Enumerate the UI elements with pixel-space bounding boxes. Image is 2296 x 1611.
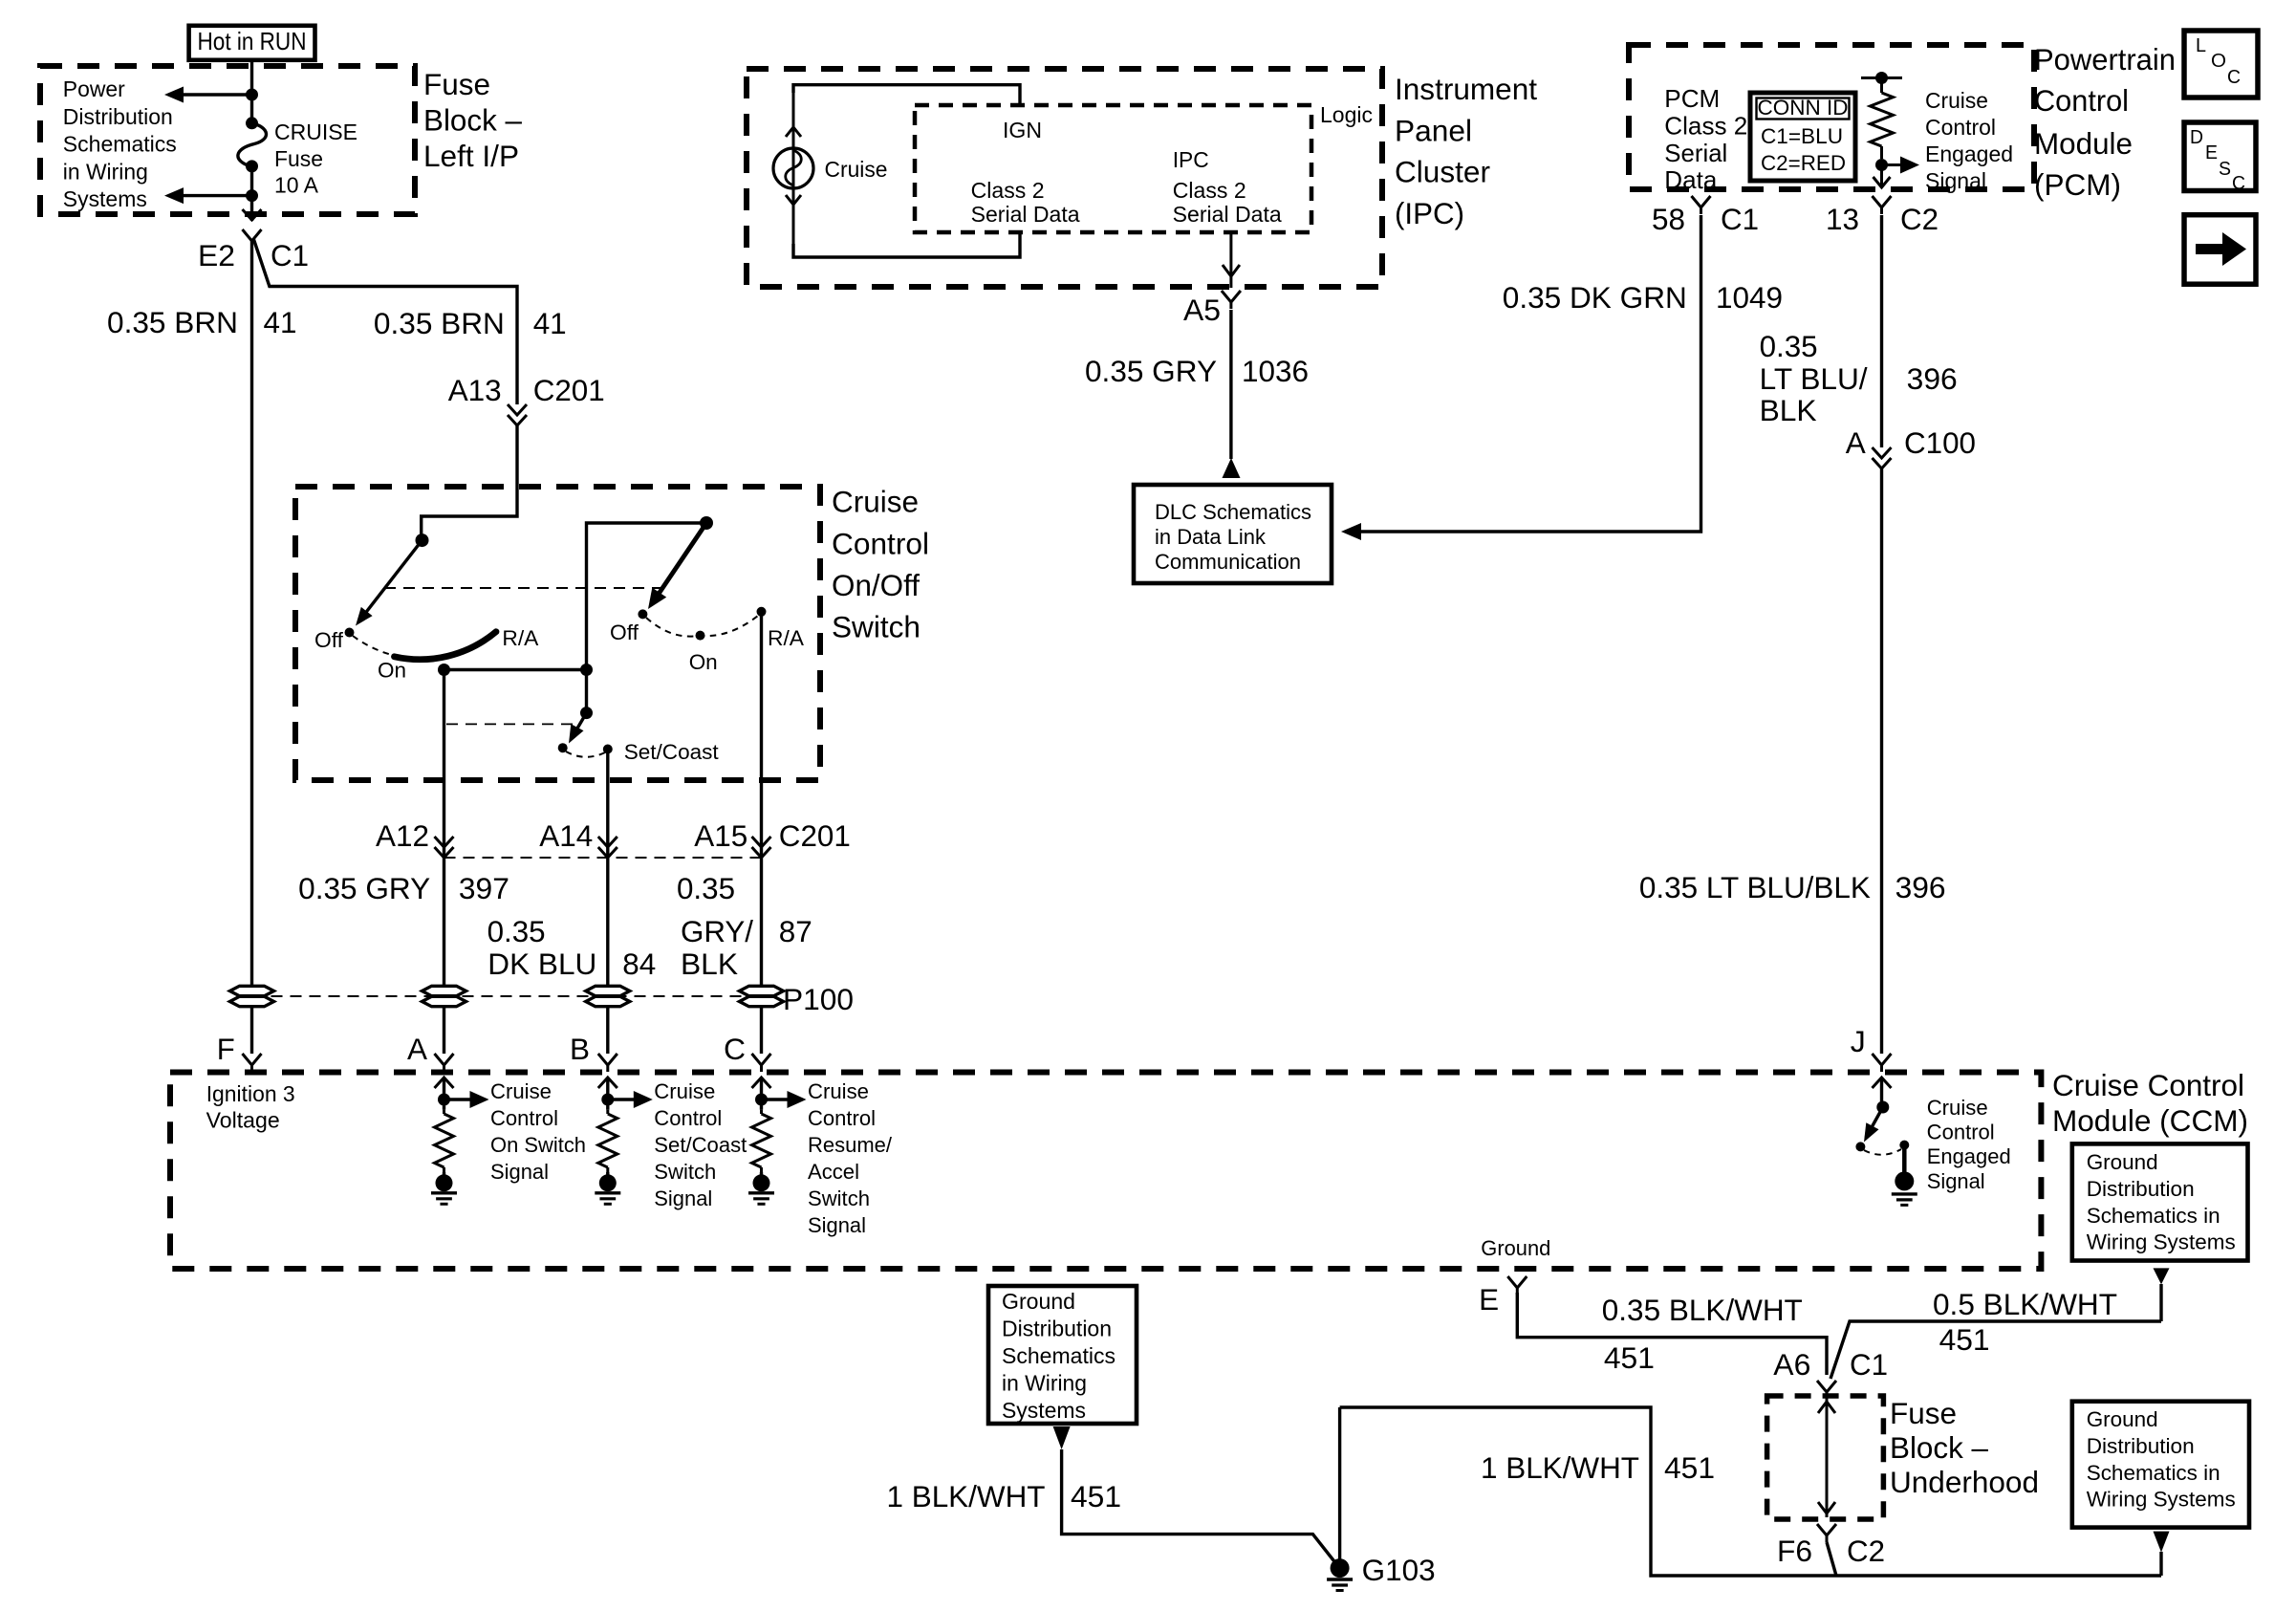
svg-text:0.35: 0.35 [1760,329,1818,363]
CCM pin resume/accel switch junction [755,1094,768,1106]
arrow reference box [2184,215,2256,285]
svg-text:IPC: IPC [1173,147,1209,172]
svg-text:BLK: BLK [1760,393,1817,427]
svg-text:Resume/: Resume/ [808,1133,893,1157]
svg-text:0.35 BRN: 0.35 BRN [107,305,238,339]
svg-text:Schematics in: Schematics in [2087,1204,2220,1228]
grommet P100 F [230,986,274,995]
switch S1 arm to Off [360,540,422,620]
svg-text:Signal: Signal [1925,168,1986,193]
node lower junction [246,189,258,202]
svg-text:IGN: IGN [1003,118,1042,142]
svg-text:B: B [570,1032,590,1066]
svg-text:451: 451 [1604,1340,1655,1375]
svg-text:Off: Off [314,628,344,652]
svg-text:A15: A15 [694,818,747,853]
svg-text:Cruise: Cruise [1927,1096,1988,1120]
svg-text:in Wiring: in Wiring [63,159,148,184]
svg-text:13: 13 [1826,202,1859,236]
CCM pin cruise on switch junction [438,1094,450,1106]
connector C201 dashed tie line [444,857,762,859]
power label Hot in RUN [189,26,315,60]
arrow from ground box middle [1053,1426,1071,1449]
switch S2 pivot [700,516,713,530]
cruise control on/off switch box [295,487,820,780]
wire 1 BLK/WHT 451 right [1340,1407,2161,1576]
fuse CRUISE 10A [246,117,258,129]
switch S1 detent arc Off to On [353,636,392,655]
svg-text:Ground: Ground [1481,1236,1550,1260]
svg-text:Voltage: Voltage [206,1108,280,1133]
svg-text:Distribution: Distribution [63,104,173,129]
pass-through P100 dashed tie [252,995,771,997]
svg-text:Control: Control [490,1106,558,1130]
ground distribution box right lower [2072,1402,2249,1528]
svg-text:Class 2: Class 2 [1664,111,1747,140]
svg-text:C100: C100 [1904,425,1976,460]
cruise control module CCM box [170,1073,2041,1270]
switch S3 set/coast pivot [580,707,593,719]
svg-text:CONN ID: CONN ID [1758,96,1849,120]
svg-text:451: 451 [1939,1322,1990,1357]
svg-text:PCM: PCM [1664,84,1720,113]
svg-text:Serial: Serial [1664,139,1727,167]
svg-text:Switch: Switch [808,1186,870,1210]
grommet P100 C [740,986,784,995]
svg-text:0.35 BRN: 0.35 BRN [374,306,505,340]
svg-text:Serial Data: Serial Data [1173,202,1282,227]
wire A12 down from On contact [443,670,445,988]
svg-text:DLC Schematics: DLC Schematics [1155,500,1311,524]
connector 58 C1 [1692,196,1711,207]
switch cruise engaged pivot [1876,1101,1889,1114]
resistor CCM resume/accel switch [760,1110,763,1114]
switch cruise engaged arm [1866,1107,1883,1138]
svg-text:C201: C201 [779,818,851,853]
switch cruise engaged left contact [1855,1142,1865,1151]
svg-text:Fuse: Fuse [423,67,490,101]
svg-text:397: 397 [459,871,509,905]
svg-text:Cruise: Cruise [490,1079,552,1103]
svg-text:Systems: Systems [63,186,147,211]
svg-text:1049: 1049 [1716,280,1783,315]
resistor CCM cruise on switch [443,1110,445,1114]
CCM pin set/coast switch input arrow [598,1078,617,1088]
svg-text:C1=BLU: C1=BLU [1761,124,1843,148]
switch S2 arm to Off [653,523,706,602]
svg-text:Serial Data: Serial Data [971,202,1080,227]
current source Cruise [792,93,795,244]
wire from F6 to ground run [1827,1542,1836,1576]
wire branch to A13 C201 [253,238,517,404]
CCM J input arrow [1873,1078,1892,1088]
fuse block underhood internal wire [1826,1398,1829,1517]
CCM pin set/coast switch signal arrow [608,1098,635,1100]
svg-text:0.35 GRY: 0.35 GRY [1085,354,1217,388]
wire 0.35 BRN 41 main down to P100 [250,241,253,987]
svg-text:Hot in RUN: Hot in RUN [198,27,307,55]
svg-text:F: F [217,1032,235,1066]
svg-text:Cruise Control: Cruise Control [2052,1068,2244,1102]
wire 0.35 DK GRN 1049 to DLC [1361,215,1701,532]
ground CCM set/coast switch [606,1172,609,1176]
svg-text:On Switch: On Switch [490,1133,586,1157]
CCM pin cruise on switch signal arrow [444,1098,471,1100]
svg-text:in Wiring: in Wiring [1002,1371,1087,1396]
svg-text:Underhood: Underhood [1890,1465,2039,1499]
svg-text:Switch: Switch [654,1160,716,1184]
svg-text:E: E [1479,1282,1499,1317]
svg-text:0.35 GRY: 0.35 GRY [298,871,430,905]
svg-text:A5: A5 [1183,293,1221,327]
svg-text:Signal: Signal [1927,1169,1985,1193]
wire 0.5 BLK/WHT 451 [1830,1321,2161,1379]
svg-text:Wiring Systems: Wiring Systems [2087,1488,2236,1512]
svg-text:E2: E2 [198,238,235,272]
svg-text:Communication: Communication [1155,550,1301,574]
svg-text:C: C [724,1032,746,1066]
node feed junction [246,89,258,101]
svg-text:Ignition 3: Ignition 3 [206,1081,295,1106]
svg-text:D: D [2190,127,2203,148]
switch S1 Off contact [345,628,355,638]
resistor CCM set/coast switch [606,1110,609,1114]
wire 396 down to CCM J [1880,468,1883,1054]
svg-text:Engaged: Engaged [1927,1144,2011,1168]
wire IPC serial data output [1229,232,1232,276]
svg-text:84: 84 [622,947,656,981]
svg-text:Control: Control [2034,83,2129,118]
svg-text:Schematics in: Schematics in [2087,1461,2220,1485]
svg-text:Control: Control [1925,115,1996,140]
svg-text:Power: Power [63,76,125,101]
svg-text:G103: G103 [1362,1553,1436,1587]
instrument panel cluster IPC box [747,69,1382,287]
svg-text:F6: F6 [1777,1534,1812,1568]
svg-text:Data: Data [1664,165,1718,194]
svg-text:41: 41 [264,305,297,339]
svg-text:41: 41 [533,306,567,340]
svg-text:Distribution: Distribution [2087,1434,2195,1458]
grommet P100 A [422,986,466,995]
svg-text:Class 2: Class 2 [1173,178,1246,203]
svg-text:Distribution: Distribution [2087,1177,2195,1201]
svg-text:BLK: BLK [681,947,738,981]
ground G103 [1331,1558,1350,1578]
svg-text:On/Off: On/Off [832,568,920,602]
connector E [1507,1276,1527,1288]
svg-text:C1: C1 [1850,1347,1888,1382]
switch S3 Set/Coast contact [603,745,613,754]
connector A5 [1222,291,1241,302]
ground CCM cruise on switch [443,1172,445,1176]
svg-text:L: L [2196,35,2206,56]
switch S3 left contact [558,743,568,752]
svg-text:C2: C2 [1900,202,1939,236]
svg-text:Ground: Ground [2087,1150,2158,1174]
connector 13 C2 [1873,196,1892,207]
svg-text:10 A: 10 A [274,173,319,198]
svg-text:396: 396 [1907,361,1958,396]
svg-text:Ground: Ground [2087,1407,2158,1431]
svg-text:Fuse: Fuse [274,146,323,171]
svg-text:C2=RED: C2=RED [1761,151,1846,175]
CONN ID table [1750,93,1855,181]
svg-text:Wiring Systems: Wiring Systems [2087,1230,2236,1254]
svg-text:Set/Coast: Set/Coast [654,1133,747,1157]
svg-text:1 BLK/WHT: 1 BLK/WHT [1481,1450,1639,1485]
arrow from ground box upper [2154,1268,2170,1284]
switch cruise engaged right contact [1899,1141,1909,1150]
svg-text:0.5 BLK/WHT: 0.5 BLK/WHT [1933,1287,2117,1321]
svg-text:0.35 LT BLU/BLK: 0.35 LT BLU/BLK [1639,870,1871,904]
svg-text:Logic: Logic [1320,102,1373,127]
CCM pin resume/accel switch signal arrow [762,1098,789,1100]
svg-text:Distribution: Distribution [1002,1317,1112,1341]
svg-text:0.35 DK GRN: 0.35 DK GRN [1503,280,1687,315]
switch S3 arm [572,713,587,738]
svg-text:C1: C1 [271,238,309,272]
ground distribution box right upper [2072,1143,2248,1260]
svg-text:Cluster: Cluster [1395,155,1490,189]
wire 0.35 LT BLU/BLK 396 [1880,215,1883,447]
svg-text:0.35: 0.35 [677,871,735,905]
svg-text:P100: P100 [783,982,854,1016]
svg-text:(IPC): (IPC) [1395,196,1464,230]
switch S1 momentary arc On to R/A [395,632,497,660]
svg-text:Cruise: Cruise [654,1079,715,1103]
mechanical link dashed lower [446,723,577,725]
wire into on/off switch [422,425,517,540]
svg-text:Set/Coast: Set/Coast [624,740,720,764]
DLC schematics box [1134,485,1332,583]
svg-text:Module (CCM): Module (CCM) [2052,1103,2248,1138]
svg-text:Left I/P: Left I/P [423,139,519,173]
svg-text:in Data Link: in Data Link [1155,525,1267,549]
connector F6 C2 [1817,1524,1836,1535]
wire On output crossbar [444,668,587,671]
powertrain control module PCM box [1629,45,2034,189]
svg-text:Control: Control [654,1106,722,1130]
mechanical link dashed upper [384,587,661,589]
svg-text:Schematics: Schematics [1002,1343,1116,1368]
svg-text:Powertrain: Powertrain [2034,42,2176,76]
svg-text:C: C [2232,173,2245,194]
arrow from ground box lower [2154,1532,2170,1553]
wires below P100 to CCM [250,1007,253,1054]
svg-text:DK BLU: DK BLU [487,947,596,981]
wire arrow to power distribution lower [181,194,252,197]
svg-text:C2: C2 [1847,1534,1885,1568]
wire riser to R/A feed [587,523,707,670]
svg-text:Systems: Systems [1002,1398,1086,1423]
svg-text:396: 396 [1895,870,1946,904]
svg-text:Cruise: Cruise [832,485,919,519]
wire A15 down from R/A contact [760,612,763,987]
wire from Hot in RUN into fuse block [250,60,253,123]
desc reference box [2184,122,2256,191]
wire cruise source loop [793,85,1020,105]
svg-text:87: 87 [779,914,812,948]
wire 0.35 GRY 1036 [1229,310,1232,459]
svg-text:A: A [1846,425,1866,460]
svg-text:Module: Module [2034,126,2133,161]
svg-text:GRY/: GRY/ [681,914,753,948]
arrow into DLC box [1223,458,1241,478]
switch S2 Off contact [638,609,647,619]
loc reference box [2184,31,2258,98]
logic box dashed [915,105,1311,232]
switch S2 On contact [696,631,705,641]
svg-text:Cruise: Cruise [808,1079,869,1103]
ground cruise engaged [1902,1145,1907,1174]
switch S2 R/A contact [757,607,767,617]
svg-text:Block –: Block – [423,102,522,137]
svg-text:C: C [2227,67,2241,88]
svg-text:Ground: Ground [1002,1289,1075,1314]
svg-text:Class 2: Class 2 [971,178,1045,203]
svg-text:A14: A14 [539,818,593,853]
svg-text:451: 451 [1664,1450,1715,1485]
grommet P100 B [586,986,630,995]
svg-text:Accel: Accel [808,1160,859,1184]
svg-text:1 BLK/WHT: 1 BLK/WHT [887,1479,1046,1513]
fuse block underhood box [1767,1396,1884,1519]
svg-text:Schematics: Schematics [63,132,177,157]
svg-text:Off: Off [610,620,639,644]
svg-text:Instrument: Instrument [1395,72,1537,106]
switch cruise engaged dashed arc [1864,1149,1901,1155]
wire 1 BLK/WHT 451 left [1062,1449,1335,1562]
wire fuse output leaving block [250,166,253,221]
node On output junction [438,664,450,676]
svg-text:Panel: Panel [1395,113,1472,147]
ground distribution box middle [988,1286,1137,1424]
svg-text:0.35 BLK/WHT: 0.35 BLK/WHT [1602,1293,1803,1327]
svg-text:Switch: Switch [832,610,921,644]
svg-text:On: On [378,659,406,683]
CCM pin resume/accel switch input arrow [752,1078,771,1088]
svg-text:Control: Control [808,1106,876,1130]
svg-text:Block –: Block – [1890,1430,1988,1465]
svg-text:LT BLU/: LT BLU/ [1760,361,1868,396]
connector E2 C1 [243,229,262,241]
svg-text:58: 58 [1652,202,1685,236]
svg-text:C201: C201 [533,373,605,407]
PCM engaged signal arrow [1880,165,1883,188]
svg-text:J: J [1851,1024,1866,1058]
svg-text:Signal: Signal [490,1160,549,1184]
svg-text:A13: A13 [448,373,502,407]
ground CCM resume/accel switch [760,1172,763,1176]
switch S3 detent arc [566,751,605,757]
wire 0.35 BLK/WHT 451 [1517,1293,1827,1375]
svg-text:451: 451 [1071,1479,1121,1513]
svg-text:Signal: Signal [654,1186,712,1210]
fuse block - left I/P box [40,66,415,214]
svg-text:Cruise: Cruise [825,157,888,182]
switch S1 pivot [416,533,429,547]
svg-text:C1: C1 [1721,202,1759,236]
svg-text:S: S [2219,159,2231,180]
svg-text:CRUISE: CRUISE [274,120,357,144]
svg-text:Control: Control [832,526,929,560]
CCM pin cruise on switch input arrow [435,1078,454,1088]
svg-text:(PCM): (PCM) [2034,167,2121,202]
svg-text:Signal: Signal [808,1213,866,1237]
svg-text:Engaged: Engaged [1925,142,2013,166]
svg-text:Cruise: Cruise [1925,88,1988,113]
wire A14 down from Set/Coast [606,753,609,987]
wire arrow to power distribution [181,93,252,96]
svg-text:0.35: 0.35 [487,914,546,948]
svg-text:1036: 1036 [1242,354,1309,388]
svg-text:R/A: R/A [768,626,804,650]
svg-text:Control: Control [1927,1121,1995,1144]
svg-text:A6: A6 [1773,1347,1810,1382]
svg-text:A12: A12 [376,818,429,853]
resistor PCM engaged signal [1861,76,1902,79]
svg-text:O: O [2211,51,2226,72]
svg-text:A: A [407,1032,427,1066]
svg-text:R/A: R/A [502,626,538,650]
svg-text:E: E [2205,142,2218,163]
CCM pin set/coast switch junction [601,1094,614,1106]
switch S2 detent arc Off On R/A [646,616,758,637]
svg-text:On: On [689,650,718,674]
svg-text:Fuse: Fuse [1890,1396,1957,1430]
